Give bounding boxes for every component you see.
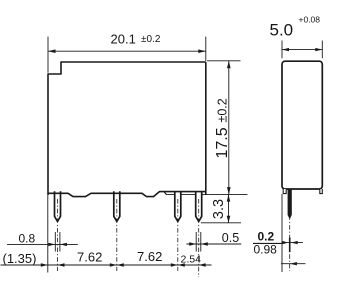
svg-text:0.98: 0.98: [254, 243, 278, 257]
svg-text:0.2: 0.2: [258, 230, 275, 244]
svg-text:0.5: 0.5: [222, 231, 239, 245]
svg-text:5.0: 5.0: [270, 21, 294, 40]
svg-text:17.5: 17.5: [214, 127, 231, 158]
svg-text:20.1: 20.1: [111, 32, 136, 47]
svg-text:7.62: 7.62: [77, 249, 102, 264]
svg-text:7.62: 7.62: [137, 249, 162, 264]
svg-text:2.54: 2.54: [181, 254, 202, 266]
svg-text:0.8: 0.8: [19, 231, 36, 245]
svg-text:+0.08: +0.08: [299, 15, 321, 25]
svg-text:±0.2: ±0.2: [216, 98, 230, 122]
svg-text:3.3: 3.3: [211, 199, 227, 219]
svg-text:±0.2: ±0.2: [141, 34, 161, 45]
svg-text:(1.35): (1.35): [3, 251, 37, 266]
